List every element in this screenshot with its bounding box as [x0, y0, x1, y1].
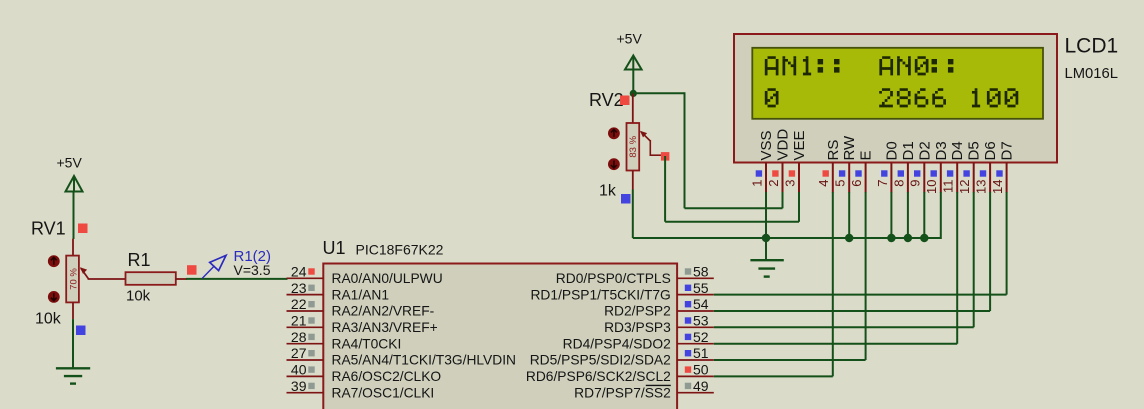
svg-text:D0: D0	[883, 141, 900, 160]
RV1 up button	[48, 255, 60, 267]
svg-text:RD1/PSP1/T5CKI/T7G: RD1/PSP1/T5CKI/T7G	[530, 287, 670, 302]
power +5V symbol (top)	[617, 31, 643, 70]
svg-text:RA7/OSC1/CLKI: RA7/OSC1/CLKI	[332, 385, 435, 400]
svg-text:2: 2	[766, 180, 781, 187]
wire LCD pin7 D0 to bus	[890, 192, 892, 238]
R1 right stub	[176, 278, 187, 280]
svg-text:E: E	[858, 150, 875, 160]
svg-text:RD6/PSP6/SCK2/SCL2: RD6/PSP6/SCK2/SCL2	[526, 369, 671, 384]
wire LCD pin8 D1 to bus	[907, 192, 909, 238]
svg-text:D2: D2	[916, 141, 933, 160]
ground bus wire	[633, 237, 941, 239]
svg-text:RV2: RV2	[589, 90, 624, 110]
wire U1 pin 51 to LCD E	[714, 192, 866, 360]
node junction RV2/+5V/VDD	[630, 90, 637, 97]
svg-text:21: 21	[291, 313, 307, 329]
U1 right pin 50	[677, 362, 714, 378]
LCD text row1 AN1:: AN0::	[765, 56, 954, 75]
svg-text:RA0/AN0/ULPWU: RA0/AN0/ULPWU	[332, 271, 443, 286]
potentiometer RV1	[66, 239, 125, 319]
svg-text:RA2/AN2/VREF-: RA2/AN2/VREF-	[332, 304, 435, 319]
LCD pin 9 D2	[908, 141, 934, 192]
LCD pin 1 VSS	[749, 130, 775, 192]
wire bus to ground	[765, 238, 767, 260]
svg-text:R1: R1	[128, 250, 151, 270]
svg-text:D5: D5	[966, 141, 983, 160]
svg-text:24: 24	[291, 264, 307, 280]
svg-text:VEE: VEE	[791, 130, 808, 160]
svg-text:VDD: VDD	[775, 129, 792, 161]
svg-text:RS: RS	[825, 140, 842, 161]
svg-text:RA5/AN4/T1CKI/T3G/HLVDIN: RA5/AN4/T1CKI/T3G/HLVDIN	[332, 353, 517, 368]
wire RV1 to ground	[72, 319, 74, 367]
U1 left pin 40	[287, 362, 324, 378]
U1 right pin 49	[677, 378, 714, 394]
junction node D0/bus	[887, 234, 895, 242]
svg-text:RD7/PSP7/SS2: RD7/PSP7/SS2	[574, 385, 671, 400]
svg-text:50: 50	[693, 362, 709, 378]
wire LCD pin5 RW to bus	[848, 192, 850, 238]
LCD screen	[752, 48, 1043, 119]
svg-text:5: 5	[833, 180, 848, 187]
svg-text:13: 13	[974, 180, 989, 194]
svg-text:39: 39	[291, 378, 307, 394]
wire LCD pin9 D2 to bus	[923, 192, 925, 238]
junction node VSS/bus	[762, 234, 770, 242]
junction node D2/bus	[920, 234, 928, 242]
wire R1 to U1 pin RA0	[186, 278, 288, 280]
svg-text:V=3.5: V=3.5	[234, 262, 271, 278]
wire VDD net: node to pin2	[633, 92, 782, 208]
RV2 up button	[608, 127, 620, 139]
svg-text:9: 9	[908, 180, 923, 187]
svg-text:RD4/PSP4/SDO2: RD4/PSP4/SDO2	[563, 336, 671, 351]
svg-text:55: 55	[693, 280, 709, 296]
op U1 body	[323, 264, 677, 409]
svg-text:49: 49	[693, 378, 709, 394]
RV2 top terminal state square (red)	[620, 96, 630, 106]
LCD pin 8 D1	[891, 141, 917, 192]
wire LCD pin10 D3 to bus	[940, 192, 942, 239]
ground symbol (under LCD)	[750, 260, 783, 276]
svg-text:12: 12	[957, 180, 972, 194]
svg-text:53: 53	[693, 313, 709, 329]
svg-text:PIC18F67K22: PIC18F67K22	[356, 242, 444, 258]
svg-text:70 %: 70 %	[68, 268, 79, 290]
wire U1 pin 50 to LCD RS	[714, 192, 833, 376]
LCD text row2 0 2866 100	[765, 88, 1018, 107]
wire U1 pin 55 to LCD D7	[714, 192, 1007, 295]
wire U1 pin 53 to LCD D5	[714, 192, 974, 327]
svg-text:6: 6	[849, 180, 864, 187]
U1 left pin 22	[287, 296, 324, 312]
U1 left pin 39	[287, 378, 324, 394]
LCD pin 4 RS	[816, 140, 842, 193]
U1 right pin 51	[677, 345, 714, 361]
wire +5V to RV1	[73, 192, 75, 240]
svg-text:28: 28	[291, 329, 307, 345]
LCD1 display body	[734, 34, 1057, 163]
svg-text:U1: U1	[323, 238, 346, 258]
svg-text:D3: D3	[933, 141, 950, 160]
svg-text:VSS: VSS	[758, 130, 775, 160]
wire VEE net: RV2 wiper to pin3	[665, 156, 799, 222]
svg-text:51: 51	[693, 345, 709, 361]
svg-text:LCD1: LCD1	[1065, 35, 1119, 58]
svg-text:3: 3	[782, 180, 797, 187]
U1 right pin 54	[677, 296, 714, 312]
svg-text:RA4/T0CKI: RA4/T0CKI	[332, 336, 402, 351]
svg-text:52: 52	[693, 329, 709, 345]
svg-text:22: 22	[291, 296, 307, 312]
ground symbol (left)	[56, 368, 90, 383]
RV2 wiper terminal state square (red)	[661, 152, 670, 161]
U1 left pin 27	[287, 345, 324, 361]
junction node RW/bus	[845, 234, 853, 242]
U1 left pin 23	[287, 280, 324, 296]
RV2 down button	[608, 158, 620, 170]
svg-text:1k: 1k	[599, 183, 617, 200]
svg-text:RW: RW	[841, 135, 858, 161]
svg-text:RD3/PSP3: RD3/PSP3	[604, 320, 671, 335]
LCD pin 13 D6	[974, 141, 1000, 194]
svg-text:7: 7	[875, 180, 890, 187]
probe R1(2)	[202, 255, 226, 278]
svg-text:RD0/PSP0/CTPLS: RD0/PSP0/CTPLS	[556, 271, 671, 286]
svg-text:D1: D1	[900, 141, 917, 160]
svg-text:RD5/PSP5/SDI2/SDA2: RD5/PSP5/SDI2/SDA2	[530, 353, 671, 368]
R1 right terminal state square (red)	[187, 265, 197, 275]
LCD pin 11 D4	[941, 141, 967, 193]
resistor R1	[126, 272, 176, 285]
U1 right pin 52	[677, 329, 714, 345]
svg-text:D6: D6	[982, 141, 999, 160]
svg-text:27: 27	[291, 345, 307, 361]
LCD pin 6 E	[849, 150, 875, 192]
RV1 bottom terminal state square (blue)	[76, 326, 86, 336]
svg-text:4: 4	[816, 180, 831, 187]
svg-text:11: 11	[941, 180, 956, 194]
LCD pin 2 VDD	[766, 129, 792, 193]
svg-text:10k: 10k	[126, 288, 151, 305]
LCD pin 12 D5	[957, 141, 983, 194]
svg-text:+5V: +5V	[57, 155, 83, 171]
svg-text:58: 58	[693, 264, 709, 280]
svg-text:RV1: RV1	[31, 219, 66, 239]
U1 left pin 21	[287, 313, 324, 329]
U1 left pin 28	[287, 329, 324, 345]
svg-text:1: 1	[749, 180, 764, 187]
U1 left pin 24	[287, 264, 324, 280]
svg-text:RA1/AN1: RA1/AN1	[332, 287, 390, 302]
svg-text:8: 8	[891, 180, 906, 187]
svg-text:D7: D7	[999, 141, 1016, 160]
svg-text:10k: 10k	[35, 311, 62, 328]
LCD pin 14 D7	[990, 141, 1016, 194]
svg-text:RA6/OSC2/CLKO: RA6/OSC2/CLKO	[332, 369, 442, 384]
svg-text:14: 14	[990, 180, 1005, 194]
wire U1 pin 52 to LCD D4	[714, 192, 957, 344]
svg-text:LM016L: LM016L	[1065, 66, 1118, 82]
svg-text:54: 54	[693, 296, 709, 312]
junction node D1/bus	[904, 234, 912, 242]
svg-text:RA3/AN3/VREF+: RA3/AN3/VREF+	[332, 320, 438, 335]
LCD pin 5 RW	[833, 135, 859, 193]
U1 right pin 58	[677, 264, 714, 280]
LCD pin 10 D3	[924, 141, 950, 194]
wire LCD pin1 VSS to bus	[765, 192, 767, 238]
wire U1 pin 54 to LCD D6	[714, 192, 990, 311]
LCD pin 7 D0	[875, 141, 901, 192]
svg-text:23: 23	[291, 280, 307, 296]
RV2 bottom terminal state square (blue)	[621, 194, 631, 204]
wire RV2 bottom to ground bus	[632, 190, 634, 239]
RV1 top terminal state square (red)	[78, 224, 88, 234]
power +5V symbol (left)	[57, 155, 83, 192]
svg-text:83 %: 83 %	[628, 135, 639, 157]
svg-text:+5V: +5V	[617, 31, 643, 47]
svg-text:RD2/PSP2: RD2/PSP2	[604, 304, 671, 319]
U1 right pin 55	[677, 280, 714, 296]
U1 right pin 53	[677, 313, 714, 329]
svg-text:40: 40	[291, 362, 307, 378]
svg-text:D4: D4	[949, 141, 966, 160]
potentiometer RV2	[627, 93, 662, 189]
wire +5V to RV2 node	[632, 70, 634, 94]
svg-text:10: 10	[924, 180, 939, 194]
RV1 down button	[48, 291, 60, 303]
LCD pin 3 VEE	[782, 130, 808, 192]
